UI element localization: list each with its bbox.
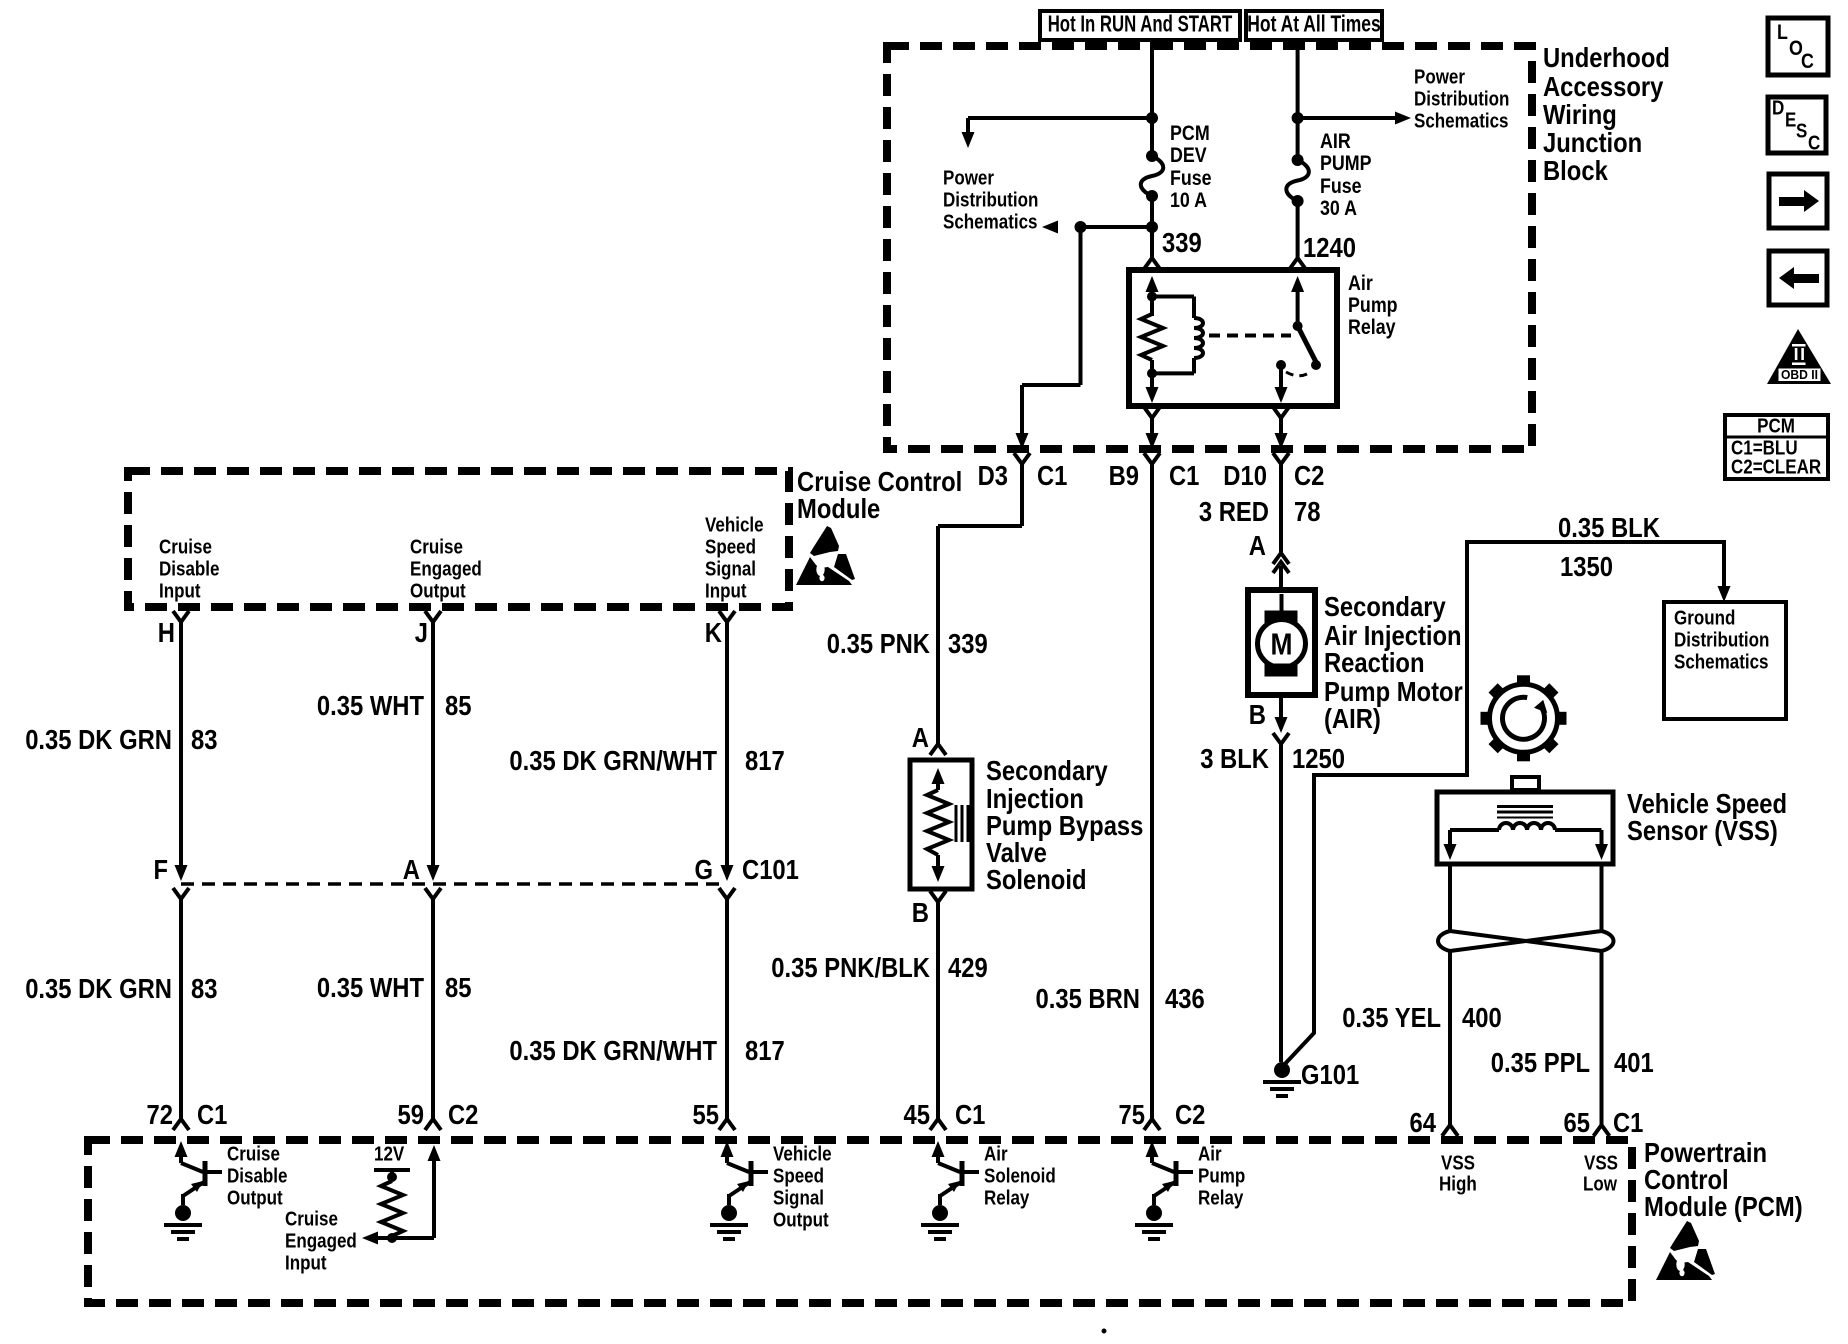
svg-text:Air: Air — [984, 1143, 1008, 1165]
motor brush top — [1265, 611, 1297, 623]
label: Power Distribution Schematics (right) — [1414, 66, 1509, 132]
svg-text:Air: Air — [1348, 272, 1373, 295]
svg-text:Hot In RUN And START: Hot In RUN And START — [1048, 11, 1233, 37]
pin label: 55 — [693, 1099, 720, 1130]
svg-text:Fuse: Fuse — [1170, 167, 1212, 190]
pin label: H — [158, 617, 175, 648]
svg-text:S: S — [1796, 120, 1807, 142]
label: Air Solenoid Relay — [984, 1143, 1056, 1209]
svg-text:PCM: PCM — [1170, 122, 1210, 145]
wire: D3 to bypass valve solenoid, circuit 339 — [938, 464, 1022, 744]
label: 0.35 DK GRN/WHT 817 (upper) — [509, 745, 784, 776]
label: 0.35 WHT 85 (lower) — [317, 972, 472, 1003]
pin label: D3 C1 — [978, 460, 1068, 491]
label: 0.35 WHT 85 (upper) — [317, 690, 472, 721]
wire: cruise engaged input branch — [362, 1145, 441, 1245]
svg-text:10 A: 10 A — [1170, 189, 1207, 212]
wire: D10 to AIR pump motor, circuit 78 — [1279, 464, 1283, 552]
connector chevron: PCM pin 45 — [930, 1119, 946, 1130]
svg-text:C1: C1 — [1169, 460, 1199, 491]
wire: cruise disable, circuit 83 upper — [175, 622, 188, 881]
svg-text:1240: 1240 — [1303, 232, 1356, 263]
icon: LOC box — [1768, 18, 1828, 75]
svg-text:OBD II: OBD II — [1781, 368, 1818, 382]
svg-text:Reaction: Reaction — [1324, 647, 1425, 678]
svg-text:Speed: Speed — [705, 536, 756, 558]
label: 0.35 BRN 436 — [1036, 983, 1205, 1014]
resistor: solenoid winding (zigzag) — [927, 790, 949, 862]
svg-text:Sensor (VSS): Sensor (VSS) — [1627, 815, 1778, 846]
svg-text:1250: 1250 — [1292, 743, 1345, 774]
svg-text:Relay: Relay — [984, 1187, 1030, 1209]
svg-text:C1: C1 — [1613, 1107, 1643, 1138]
svg-text:Ground: Ground — [1674, 607, 1735, 629]
icon: OBD II triangle — [1767, 329, 1831, 384]
wire: VSS low to PCM pin 65, circuit 401 — [1600, 951, 1604, 1125]
wire: circuit 83 lower — [179, 899, 183, 1119]
node: relay coil top junction — [1147, 292, 1157, 302]
connector chevron: solenoid A — [930, 744, 946, 755]
svg-text:0.35 BRN: 0.35 BRN — [1036, 983, 1141, 1014]
node: relay coil bottom junction — [1147, 368, 1157, 378]
transistor: air solenoid relay driver — [921, 1141, 979, 1239]
svg-text:85: 85 — [445, 972, 472, 1003]
label: PCM DEV Fuse 10 A — [1170, 122, 1212, 212]
svg-text:F: F — [154, 854, 169, 885]
svg-text:3 RED: 3 RED — [1199, 496, 1269, 527]
svg-text:Wiring: Wiring — [1543, 99, 1617, 130]
relay coil input arrow — [1146, 276, 1159, 297]
svg-text:3 BLK: 3 BLK — [1200, 743, 1269, 774]
wire: relay switched output — [1275, 365, 1288, 403]
connector chevron: PCM pin 64 — [1442, 1125, 1458, 1136]
svg-text:Secondary: Secondary — [1324, 591, 1446, 622]
label: Vehicle Speed Sensor (VSS) — [1627, 788, 1787, 846]
wire: solenoid to PCM pin 45, circuit 429 — [936, 902, 940, 1119]
legend: PCM connector colors — [1725, 415, 1828, 479]
connector chevron: G — [719, 888, 735, 899]
svg-text:0.35 PNK: 0.35 PNK — [827, 628, 930, 659]
svg-text:Distribution: Distribution — [1414, 88, 1509, 110]
pin label: 59 C2 — [398, 1099, 479, 1130]
motor: Secondary Air Injection Reaction Pump Motor box — [1248, 590, 1315, 695]
wire: fuse output circuit 1240 — [1296, 201, 1300, 258]
svg-text:Relay: Relay — [1198, 1187, 1244, 1209]
svg-text:C: C — [1801, 50, 1814, 73]
wire: cruise engaged, circuit 85 upper — [427, 622, 440, 881]
svg-text:Distribution: Distribution — [1674, 629, 1769, 651]
label: Cruise Control Module — [797, 466, 962, 524]
relay contact dashed travel arc — [1286, 371, 1312, 376]
connector chevron below D3 — [0, 0, 1, 1]
label: Ground Distribution Schematics — [1674, 607, 1769, 673]
label: Air Pump Relay — [1348, 272, 1398, 339]
node: junction on branch — [1075, 221, 1087, 233]
label: Air Pump Relay (PCM) — [1198, 1143, 1245, 1209]
icon: back arrow box — [1769, 251, 1827, 305]
svg-text:Underhood: Underhood — [1543, 42, 1670, 73]
svg-text:Relay: Relay — [1348, 316, 1396, 339]
svg-text:H: H — [158, 617, 175, 648]
wire: circuit 85 lower — [431, 899, 435, 1119]
connector chevron: K — [719, 611, 735, 622]
svg-text:78: 78 — [1294, 496, 1321, 527]
svg-text:0.35 DK GRN: 0.35 DK GRN — [25, 724, 172, 755]
wire: B9 to PCM pin 75, circuit 436 — [1150, 464, 1154, 1119]
svg-text:Accessory: Accessory — [1543, 71, 1664, 102]
connector chevrons: motor A in-line — [1273, 553, 1289, 590]
svg-text:0.35 YEL: 0.35 YEL — [1342, 1002, 1441, 1033]
ESD symbol (cruise control module) — [796, 526, 855, 585]
svg-text:Schematics: Schematics — [943, 211, 1038, 233]
VSS pickup coil — [1499, 823, 1555, 830]
svg-text:Cruise: Cruise — [227, 1143, 280, 1165]
label: 3 BLK 1250 — [1200, 743, 1345, 774]
svg-text:Output: Output — [773, 1209, 829, 1231]
pin label: B (solenoid) — [912, 897, 929, 928]
svg-text:64: 64 — [1410, 1107, 1437, 1138]
svg-text:Block: Block — [1543, 155, 1608, 186]
wire: relay coil to ground output — [1146, 373, 1159, 403]
motor symbol M circle — [1258, 594, 1306, 668]
pin label: A (motor) — [1249, 530, 1266, 561]
svg-text:VSS: VSS — [1441, 1152, 1475, 1174]
Powertrain Control Module dashed boundary — [88, 1140, 1632, 1303]
VSS sensor box — [1437, 792, 1613, 864]
VSS pickup core — [1497, 807, 1553, 818]
svg-text:Pump: Pump — [1348, 294, 1398, 317]
node: relay switch pivot — [1293, 321, 1303, 331]
svg-text:339: 339 — [948, 628, 988, 659]
svg-text:A: A — [1249, 530, 1266, 561]
label: VSS High — [1439, 1152, 1477, 1195]
label: Cruise Engaged Output — [410, 536, 482, 602]
label: Cruise Disable Output — [227, 1143, 288, 1209]
svg-text:0.35 DK GRN/WHT: 0.35 DK GRN/WHT — [509, 1035, 717, 1066]
svg-text:PCM: PCM — [1757, 415, 1795, 437]
transistor: air pump relay driver — [1135, 1141, 1193, 1239]
label: Vehicle Speed Signal Input — [705, 514, 764, 602]
svg-text:M: M — [1271, 626, 1293, 661]
label: 0.35 BLK 1350 — [1558, 512, 1660, 582]
svg-text:55: 55 — [693, 1099, 720, 1130]
wire: circuit 817 lower — [725, 899, 729, 1119]
wire: branch to power distribution schematics (down arrow) — [962, 118, 1153, 148]
svg-text:Junction: Junction — [1543, 127, 1642, 158]
connector chevron: F — [173, 888, 189, 899]
label: Secondary Air Injection Reaction Pump Motor (AIR) — [1324, 591, 1463, 734]
connector chevron: PCM pin 55 — [719, 1119, 735, 1130]
svg-text:C2=CLEAR: C2=CLEAR — [1731, 456, 1822, 478]
svg-text:Disable: Disable — [227, 1165, 288, 1187]
wire: relay to junction block edge (B9) — [1146, 418, 1159, 449]
VSS reluctor gear — [1490, 684, 1558, 752]
svg-text:Module: Module — [797, 493, 880, 524]
motor brush bottom — [1265, 664, 1297, 676]
svg-text:D: D — [1772, 97, 1784, 119]
pin label: F — [154, 854, 169, 885]
label: AIR PUMP Fuse 30 A — [1320, 130, 1372, 220]
svg-text:Signal: Signal — [705, 558, 756, 580]
svg-text:Solenoid: Solenoid — [984, 1165, 1056, 1187]
label: 0.35 PPL 401 — [1491, 1047, 1654, 1078]
svg-text:B: B — [912, 897, 929, 928]
pin label: A (solenoid) — [912, 722, 929, 753]
svg-text:0.35 WHT: 0.35 WHT — [317, 690, 424, 721]
inductor: relay coil winding — [1152, 297, 1203, 374]
svg-text:B9: B9 — [1109, 460, 1139, 491]
connector chevron: relay switch input — [1290, 258, 1306, 269]
svg-text:0.35 PPL: 0.35 PPL — [1491, 1047, 1590, 1078]
fuse: PCM DEV Fuse 10 A — [1141, 150, 1164, 202]
svg-text:85: 85 — [445, 690, 472, 721]
resistor: 12V pull-up — [374, 1143, 410, 1243]
label: Secondary Injection Pump Bypass Valve Solenoid — [986, 755, 1143, 895]
label: Underhood Accessory Wiring Junction Block — [1543, 42, 1670, 186]
wire from Hot At All Times to AIR PUMP fuse — [1296, 40, 1300, 160]
svg-text:0.35 BLK: 0.35 BLK — [1558, 512, 1660, 543]
connector chevron: relay coil terminal — [1144, 258, 1160, 269]
pin label: 64 — [1410, 1107, 1437, 1138]
label: Cruise Engaged Input — [285, 1208, 357, 1274]
svg-text:59: 59 — [398, 1099, 425, 1130]
power source box: Hot In RUN And START — [1040, 11, 1240, 40]
svg-text:Air: Air — [1198, 1143, 1222, 1165]
relay actuation dashed link — [1209, 334, 1291, 338]
Cruise Control Module dashed boundary — [128, 471, 789, 607]
svg-text:AIR: AIR — [1320, 130, 1351, 153]
icon: forward arrow box — [1769, 174, 1827, 228]
connector chevron: relay output 87 — [1273, 407, 1289, 418]
label: 0.35 PNK/BLK 429 — [771, 952, 987, 983]
solenoid input arrow — [932, 768, 945, 790]
solenoid core bars — [956, 805, 968, 842]
svg-text:30 A: 30 A — [1320, 197, 1357, 220]
svg-text:Schematics: Schematics — [1414, 110, 1509, 132]
connector C101 dashed line — [181, 882, 727, 886]
svg-text:436: 436 — [1165, 983, 1205, 1014]
label: 3 RED 78 — [1199, 496, 1321, 527]
connector chevron: PCM pin 65 — [1594, 1125, 1610, 1136]
svg-text:Vehicle: Vehicle — [773, 1143, 832, 1165]
connector chevron: H — [173, 611, 189, 622]
label: 0.35 DK GRN/WHT 817 (lower) — [509, 1035, 784, 1066]
connector chevron: A — [425, 888, 441, 899]
svg-text:B: B — [1249, 699, 1266, 730]
motor output arrow — [1275, 695, 1288, 733]
svg-text:75: 75 — [1119, 1099, 1146, 1130]
label: 0.35 YEL 400 — [1342, 1002, 1502, 1033]
VSS rotation arrow — [1502, 697, 1547, 739]
label: 0.35 PNK 339 — [827, 628, 988, 659]
svg-text:Hot At All Times: Hot At All Times — [1247, 11, 1380, 37]
svg-text:PUMP: PUMP — [1320, 152, 1372, 175]
connector chevron: J — [425, 611, 441, 622]
connector chevron: PCM pin 75 — [1144, 1119, 1160, 1130]
svg-text:C2: C2 — [1294, 460, 1324, 491]
svg-text:D10: D10 — [1223, 460, 1267, 491]
connector chevron: D10 — [1273, 453, 1289, 464]
svg-text:C101: C101 — [742, 854, 799, 885]
node: relay switch arm end — [1311, 360, 1321, 370]
svg-text:G: G — [695, 854, 714, 885]
pin label: 45 C1 — [904, 1099, 986, 1130]
ground G101 symbol — [1263, 1062, 1301, 1096]
svg-text:45: 45 — [904, 1099, 931, 1130]
connector chevron: PCM pin 59 — [425, 1119, 441, 1130]
resistor: relay suppression resistor — [1141, 297, 1163, 374]
stray print dot artifact — [1102, 1329, 1107, 1334]
svg-text:12V: 12V — [374, 1143, 405, 1165]
VSS connector tab — [1512, 777, 1539, 790]
connector chevron: B9 — [1144, 453, 1160, 464]
solenoid output arrow — [932, 855, 945, 882]
svg-text:(AIR): (AIR) — [1324, 703, 1381, 734]
transistor: cruise disable output driver — [164, 1141, 222, 1239]
wire from Hot In RUN And START to PCM DEV fuse — [1150, 40, 1154, 156]
pin label: A (C101) — [403, 854, 420, 885]
wire: VSS high to PCM pin 64, circuit 400 — [1448, 951, 1452, 1125]
svg-text:Cruise: Cruise — [159, 536, 212, 558]
Underhood Accessory Wiring Junction Block dashed boundary — [887, 46, 1532, 449]
wire: VSS low lead upper — [1600, 864, 1604, 931]
relay K: Air Pump Relay box — [1129, 270, 1337, 406]
label: Vehicle Speed Signal Output — [773, 1143, 832, 1231]
label: circuit 339 (in junction block) — [1162, 227, 1202, 258]
svg-text:DEV: DEV — [1170, 144, 1207, 167]
wire: drop to D3 connector — [1016, 227, 1081, 449]
svg-text:Output: Output — [410, 580, 466, 602]
svg-text:VSS: VSS — [1584, 1152, 1618, 1174]
svg-text:C2: C2 — [448, 1099, 478, 1130]
icon: DESC box — [1768, 97, 1826, 154]
svg-text:83: 83 — [191, 724, 218, 755]
node: junction on AIR PUMP feed — [1292, 112, 1304, 124]
svg-text:Solenoid: Solenoid — [986, 864, 1087, 895]
svg-text:C1: C1 — [197, 1099, 227, 1130]
svg-text:83: 83 — [191, 973, 218, 1004]
svg-text:C: C — [1808, 132, 1820, 154]
wire: relay output to junction block edge (D10) — [1275, 418, 1288, 449]
pin label: 72 C1 — [147, 1099, 228, 1130]
svg-text:C1: C1 — [955, 1099, 985, 1130]
svg-text:Cruise: Cruise — [285, 1208, 338, 1230]
svg-text:339: 339 — [1162, 227, 1202, 258]
svg-text:Speed: Speed — [773, 1165, 824, 1187]
relay switch arm — [1298, 326, 1316, 362]
pin label: D10 C2 — [1223, 460, 1324, 491]
svg-text:0.35 WHT: 0.35 WHT — [317, 972, 424, 1003]
svg-text:0.35 DK GRN/WHT: 0.35 DK GRN/WHT — [509, 745, 717, 776]
svg-text:G101: G101 — [1301, 1059, 1359, 1090]
svg-text:Vehicle: Vehicle — [705, 514, 764, 536]
wire: branch to power distribution schematics (right arrow) — [1298, 112, 1411, 125]
svg-text:E: E — [1785, 109, 1796, 131]
svg-text:Module (PCM): Module (PCM) — [1644, 1191, 1803, 1222]
label: VSS Low — [1583, 1152, 1618, 1195]
svg-text:Power: Power — [943, 167, 994, 189]
svg-text:Input: Input — [159, 580, 201, 602]
pin label: 75 C2 — [1119, 1099, 1206, 1130]
svg-text:D3: D3 — [978, 460, 1008, 491]
Ground Distribution Schematics box — [1664, 602, 1786, 719]
svg-text:Engaged: Engaged — [285, 1230, 357, 1252]
svg-text:A: A — [403, 854, 420, 885]
wire: branch to schematics (left arrow) — [1042, 221, 1152, 234]
pin label: J — [415, 617, 428, 648]
svg-text:Secondary: Secondary — [986, 755, 1108, 786]
connector chevron: solenoid B — [930, 891, 946, 902]
svg-text:Fuse: Fuse — [1320, 175, 1362, 198]
svg-text:Engaged: Engaged — [410, 558, 482, 580]
fuse: AIR PUMP Fuse 30 A — [1286, 154, 1309, 207]
svg-text:Low: Low — [1583, 1173, 1617, 1195]
transistor: vehicle speed signal output driver — [710, 1141, 768, 1239]
VSS internal leads — [1444, 830, 1609, 860]
node: junction below PCM DEV fuse — [1146, 221, 1158, 233]
pin label: K — [705, 617, 722, 648]
wire: black ground jog to G101 — [1283, 542, 1731, 1066]
svg-text:817: 817 — [745, 745, 785, 776]
label: Power Distribution Schematics (left) — [943, 167, 1038, 233]
wire: fuse output circuit 339 — [1150, 196, 1154, 258]
connector chevron: D3 — [1014, 453, 1030, 464]
svg-text:C1: C1 — [1037, 460, 1067, 491]
svg-text:L: L — [1777, 21, 1788, 44]
svg-text:Input: Input — [705, 580, 747, 602]
label: G101 — [1301, 1059, 1359, 1090]
svg-text:65: 65 — [1564, 1107, 1591, 1138]
svg-text:C2: C2 — [1175, 1099, 1205, 1130]
connector chevron: PCM pin 72 — [173, 1119, 189, 1130]
pin label: B9 C1 — [1109, 460, 1200, 491]
VSS gear teeth — [1481, 675, 1567, 761]
svg-text:A: A — [912, 722, 929, 753]
label: 0.35 DK GRN 83 (lower) — [25, 973, 217, 1004]
svg-text:817: 817 — [745, 1035, 785, 1066]
svg-text:K: K — [705, 617, 722, 648]
twisted pair symbol — [1438, 931, 1614, 951]
ESD symbol (PCM) — [1656, 1221, 1715, 1280]
connector chevron: relay output 86 — [1144, 407, 1160, 418]
svg-text:401: 401 — [1614, 1047, 1654, 1078]
svg-text:429: 429 — [948, 952, 988, 983]
svg-text:1350: 1350 — [1560, 551, 1613, 582]
pin label: G C101 — [695, 854, 799, 885]
svg-text:High: High — [1439, 1173, 1477, 1195]
svg-text:0.35 PNK/BLK: 0.35 PNK/BLK — [771, 952, 930, 983]
svg-text:Power: Power — [1414, 66, 1465, 88]
pin label: B (motor) — [1249, 699, 1266, 730]
svg-text:Signal: Signal — [773, 1187, 824, 1209]
relay switch input arrow — [1291, 276, 1304, 326]
power source box: Hot At All Times — [1246, 11, 1382, 40]
label: 0.35 DK GRN 83 (upper) — [25, 724, 217, 755]
svg-text:72: 72 — [147, 1099, 174, 1130]
pin label: 65 C1 — [1564, 1107, 1644, 1138]
node: relay output contact — [1276, 360, 1286, 370]
svg-text:0.35 DK GRN: 0.35 DK GRN — [25, 973, 172, 1004]
svg-text:Cruise: Cruise — [410, 536, 463, 558]
svg-text:Distribution: Distribution — [943, 189, 1038, 211]
svg-text:J: J — [415, 617, 428, 648]
svg-text:Schematics: Schematics — [1674, 651, 1769, 673]
label: Cruise Disable Input — [159, 536, 220, 602]
svg-text:Input: Input — [285, 1252, 327, 1274]
svg-text:Output: Output — [227, 1187, 283, 1209]
label: Powertrain Control Module (PCM) — [1644, 1137, 1803, 1222]
solenoid: Secondary Injection Pump Bypass Valve Solenoid box — [910, 760, 972, 889]
